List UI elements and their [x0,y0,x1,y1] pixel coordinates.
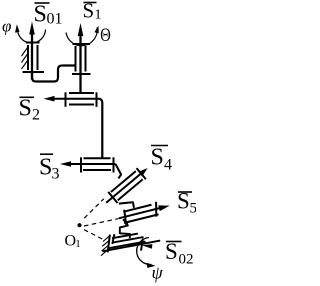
joint J1 axis arrow S1 [78,23,84,93]
label S01 [34,2,63,28]
svg-text:ψ: ψ [152,263,164,283]
joint J01 bottom flange [23,71,45,73]
svg-text:S: S [151,145,164,171]
label S1 [83,0,102,23]
ground hatching at J02 [101,236,110,256]
svg-text:1: 1 [75,238,81,250]
joint J3 axis arrow S3 [60,161,116,167]
joint J1 sleeve [76,46,86,72]
joint J01 axis arrow S01 [29,22,35,80]
joint J3 sleeve [83,158,111,170]
svg-text:Θ: Θ [100,25,111,46]
link from J5 to J02 [120,219,130,238]
svg-text:S: S [165,239,178,264]
svg-text:φ: φ [2,17,11,36]
svg-text:S: S [83,0,95,23]
link from J4 to J5 [119,202,134,208]
svg-text:2: 2 [32,107,40,124]
point O1 [77,223,81,227]
joint J02 right flange [141,238,143,250]
label S2 [19,96,41,124]
joint J5 sleeve [123,205,151,212]
joint J5 axis arrow S5 [119,208,160,218]
joint J01 top flange [26,42,40,44]
joint J4 flanges [108,192,117,203]
joint J2 flanges [66,92,97,107]
joint J1 top flange [73,43,91,45]
joint J3 flanges [81,157,114,172]
svg-text:S: S [39,155,52,181]
joint J5 flanges [123,210,128,225]
label S3 [39,154,60,182]
joint J01 sleeve [28,45,38,70]
label S02 [165,239,194,268]
joint J02 axis [113,237,144,243]
svg-text:S: S [34,2,47,28]
svg-text:S: S [19,96,32,122]
joint J4 (diagonal) [102,163,153,209]
label S4 [151,145,173,174]
joint J1 rotation arc theta [66,26,99,46]
svg-text:01: 01 [47,11,63,28]
link from J01 to J1 [32,66,76,82]
label O1 [65,233,81,251]
joint J2 sleeve [69,93,94,105]
link from J2 to J3 [98,99,102,158]
dashed ray O1 to J02 axis [84,230,104,240]
link from J3 to J4 [116,164,122,178]
joint J02 (tilted, grounded) [101,234,160,256]
joint J1 bottom flange [72,73,91,75]
joint J01 rotation arc phi [15,24,46,43]
label S5 [177,189,197,217]
joint J4 sleeve [111,171,136,192]
joint J5 (tilted) [117,199,172,226]
ground hatching at J01 [22,48,28,70]
dashed ray O1 to J4 axis [84,199,104,218]
joint J02 vector arrow S02 [102,241,160,252]
joint J4 axis arrow S4 [106,174,140,203]
joint J2 axis arrow S2 [44,96,99,102]
svg-text:1: 1 [95,8,102,23]
svg-text:4: 4 [164,157,172,174]
joint J02 sleeve [112,234,138,239]
joint J02 left flange [112,234,114,244]
svg-text:3: 3 [52,166,60,183]
svg-text:5: 5 [190,201,197,217]
dashed ray O1 to J5 axis [84,219,119,226]
svg-text:02: 02 [179,252,194,268]
rotation arc psi [137,238,156,269]
joint J02 left flange wall [108,235,110,253]
